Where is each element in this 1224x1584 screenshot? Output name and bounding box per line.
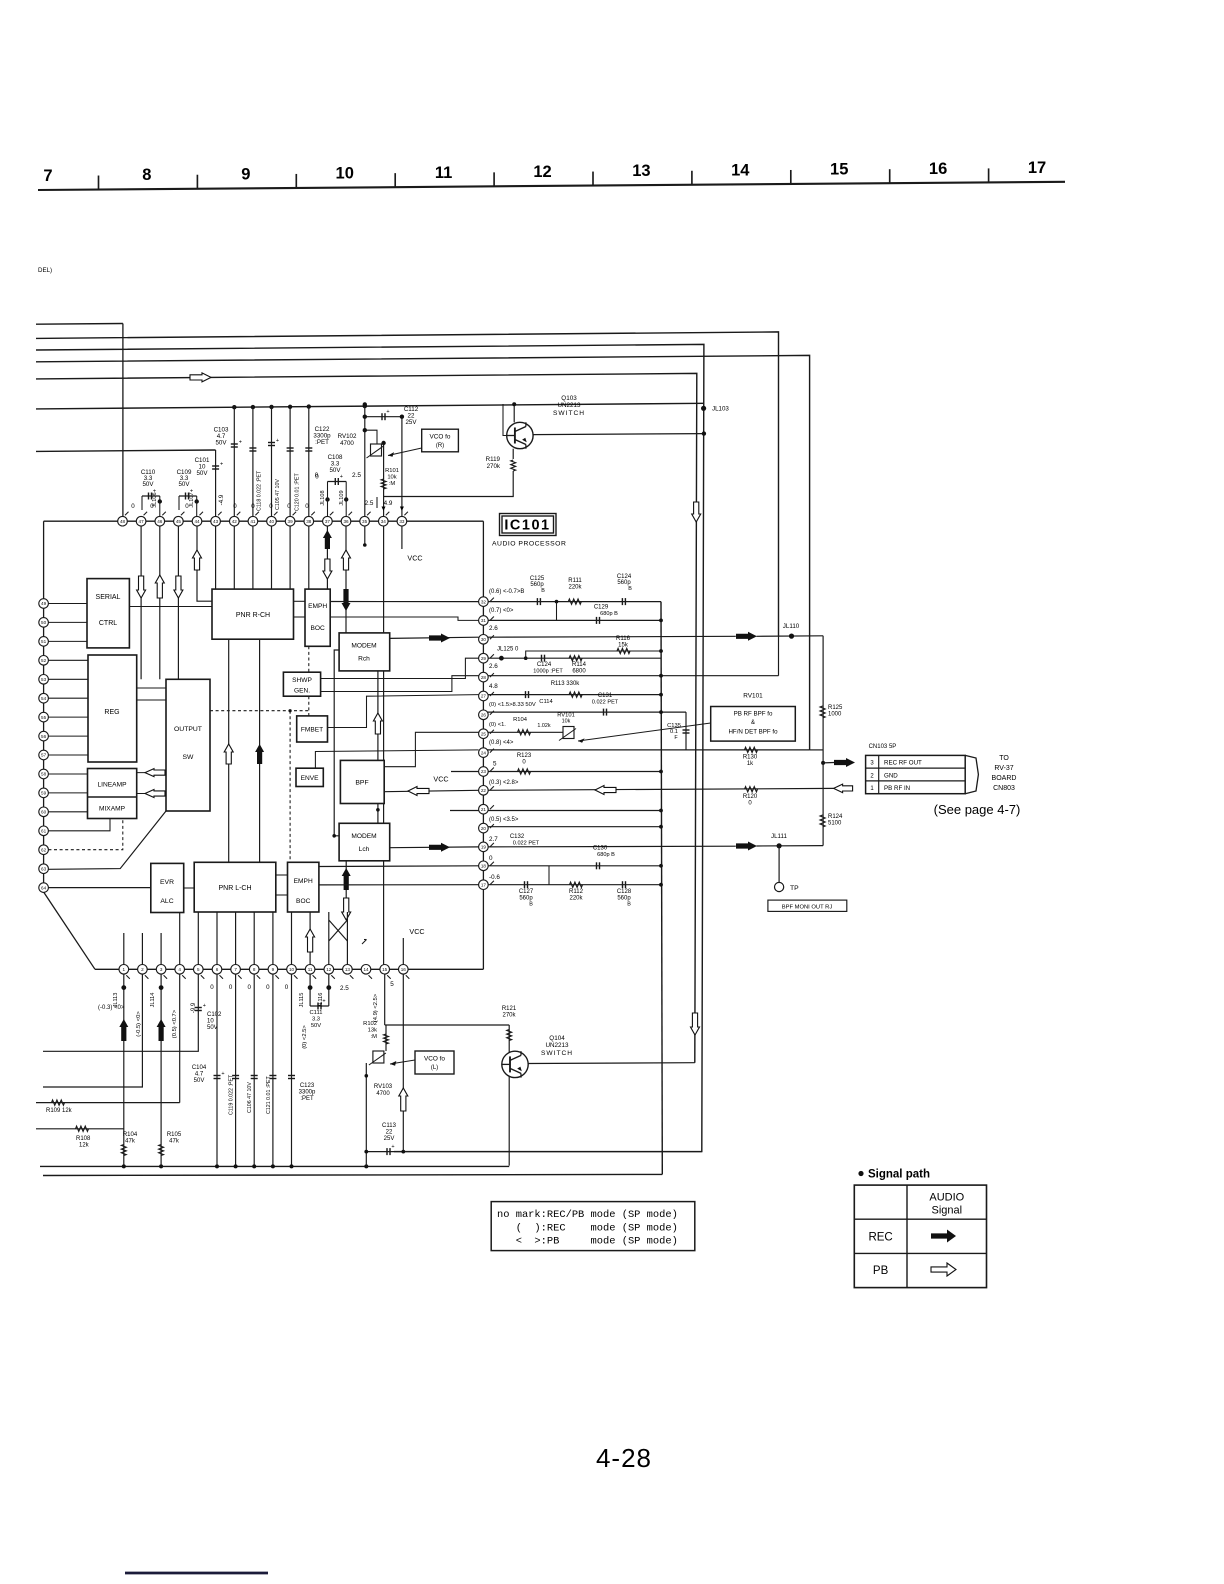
bottom bus y1166 <box>40 1165 509 1167</box>
signal arrow down col47 <box>137 576 146 598</box>
svg-text:PNR R-CH: PNR R-CH <box>236 612 270 619</box>
wire REG to OUTPUT SW b <box>137 699 166 701</box>
svg-text:2.6: 2.6 <box>489 625 498 632</box>
junction JL114 <box>160 969 162 1166</box>
svg-text:46: 46 <box>157 519 163 524</box>
wire PNR L-CH to EMPH lower a <box>276 874 288 876</box>
capacitor C118 0.022 PET <box>249 447 256 449</box>
block SERIAL CTRL <box>87 579 129 648</box>
svg-text:C104: C104 <box>192 1065 207 1071</box>
capacitor C111 3.3 50V <box>310 1005 329 1007</box>
wire col15 to Q104 base line <box>384 969 386 1025</box>
svg-text:680p B: 680p B <box>597 852 615 858</box>
legend PB open arrow <box>931 1263 956 1276</box>
svg-text:0: 0 <box>150 503 154 510</box>
trimmer RV102 4700 <box>371 444 382 456</box>
wire PNR R-CH to EMPH a <box>294 600 306 602</box>
tick marks at right pin labels <box>125 512 494 979</box>
wire PNR R-CH to EMPH b <box>294 616 306 618</box>
svg-text:4.9: 4.9 <box>384 500 393 507</box>
svg-text:33: 33 <box>399 519 405 524</box>
svg-text:R108: R108 <box>76 1136 91 1142</box>
svg-text:(0) <1.: (0) <1. <box>489 722 506 728</box>
svg-text:SWITCH: SWITCH <box>553 410 585 417</box>
svg-text:R113 330k: R113 330k <box>551 681 581 687</box>
svg-text:1000p :PET: 1000p :PET <box>533 669 563 675</box>
svg-text:16: 16 <box>929 160 947 178</box>
svg-text:15: 15 <box>830 161 848 179</box>
svg-text:JL114: JL114 <box>150 993 156 1008</box>
svg-text:VCO fo: VCO fo <box>424 1056 445 1063</box>
svg-text:LINEAMP: LINEAMP <box>98 782 128 789</box>
svg-text:PB: PB <box>873 1265 889 1277</box>
pin20 line <box>483 826 661 828</box>
svg-text:50V: 50V <box>215 440 227 447</box>
svg-text:C120 0.01 :PET: C120 0.01 :PET <box>294 473 300 511</box>
resistor R125 1000 <box>820 706 825 718</box>
svg-text:0: 0 <box>269 503 273 510</box>
svg-text:6800: 6800 <box>572 669 586 675</box>
svg-text:12: 12 <box>533 163 551 181</box>
svg-text:0: 0 <box>266 984 270 991</box>
svg-text:R121: R121 <box>502 1006 517 1012</box>
block PNR L-CH <box>194 862 276 912</box>
ruler scale bar <box>38 159 1065 190</box>
svg-text:TO: TO <box>999 755 1009 762</box>
wire bus A (y338) to vertical x778 <box>36 332 779 636</box>
svg-text:57: 57 <box>41 753 47 758</box>
svg-text:C129: C129 <box>594 605 609 611</box>
svg-text:FMBET: FMBET <box>301 727 323 734</box>
svg-text:7: 7 <box>43 167 52 185</box>
svg-text:4700: 4700 <box>340 440 354 447</box>
wire bus E (y408) ending at JL103 <box>36 403 704 409</box>
wire col4 down <box>179 969 181 1102</box>
wire CN103 pin3 arrow <box>823 762 834 764</box>
svg-text:15k: 15k <box>618 643 629 649</box>
wire SHWP GEN out to pin28 <box>321 676 479 692</box>
svg-text:4-28: 4-28 <box>596 1443 652 1473</box>
svg-text:R116: R116 <box>616 636 631 642</box>
wire right column chain <box>482 521 484 969</box>
diagonal wire pin64 to bottom row <box>44 892 95 969</box>
svg-text:25: 25 <box>481 731 487 736</box>
signal arrow up col36 <box>342 550 351 570</box>
block EMPH BOC lower <box>288 862 319 912</box>
wire REG to OUTPUT SW a <box>137 687 166 689</box>
svg-text:47: 47 <box>139 519 145 524</box>
capacitor C101 <box>212 465 219 467</box>
svg-text:680p B: 680p B <box>600 611 618 617</box>
svg-text:JL110: JL110 <box>783 623 800 630</box>
svg-text:36: 36 <box>343 519 349 524</box>
dashed wire pin62 to MIXAMP <box>48 819 122 850</box>
bottom left rule <box>125 1572 268 1575</box>
svg-text:C114: C114 <box>539 699 553 705</box>
junction JL106 <box>158 499 162 503</box>
svg-text:0: 0 <box>247 984 251 991</box>
transistor Q103 <box>507 422 533 448</box>
svg-text:R119: R119 <box>486 456 501 463</box>
svg-text:0: 0 <box>210 984 214 991</box>
svg-text:+: + <box>386 409 389 415</box>
svg-text:220k: 220k <box>569 896 583 902</box>
svg-text:18: 18 <box>481 864 487 869</box>
svg-text:-4.9: -4.9 <box>218 494 225 505</box>
wire col6 C104 <box>216 969 218 1166</box>
svg-text:C102: C102 <box>207 1012 222 1018</box>
svg-text:16: 16 <box>401 967 407 972</box>
svg-text:50V: 50V <box>178 481 190 488</box>
wire col8 C106 <box>253 969 255 1166</box>
svg-text:R111: R111 <box>568 578 582 584</box>
svg-text:11: 11 <box>435 164 452 182</box>
svg-text:PNR L-CH: PNR L-CH <box>218 885 251 892</box>
svg-text:30: 30 <box>481 637 487 642</box>
svg-text:4: 4 <box>178 967 181 972</box>
wire Q103 base up <box>503 404 507 436</box>
wire FMBET out to pin27 <box>328 695 479 728</box>
svg-text:B: B <box>627 902 631 908</box>
wire BPF bottom to MODEM Lch top <box>377 804 379 824</box>
svg-text:R109 12k: R109 12k <box>46 1108 73 1114</box>
wire PNR L-CH to EMPH lower b <box>276 894 288 896</box>
wire BPF to pin22 (open arrow) <box>384 790 478 791</box>
svg-text:(0.7) <0>: (0.7) <0> <box>489 608 514 614</box>
capacitor C120 0.01 PET <box>287 447 294 449</box>
signal arrow up col3 filled <box>157 1019 166 1041</box>
svg-text:31: 31 <box>481 618 487 623</box>
pin30 line REC out to JL110 <box>483 635 735 638</box>
svg-text:37: 37 <box>325 519 331 524</box>
svg-text:RV103: RV103 <box>374 1084 393 1090</box>
block REG <box>88 655 137 762</box>
box VCO fo (R) <box>422 429 459 452</box>
svg-text:1k: 1k <box>747 761 754 767</box>
svg-text:14: 14 <box>363 967 369 972</box>
transistor Q104 <box>502 1051 528 1077</box>
wire pin24 to CN103 drop <box>810 749 824 751</box>
open left arrow at CN103 pin1 <box>834 784 853 793</box>
svg-text:(0.6) <-0.7>B: (0.6) <-0.7>B <box>489 589 524 595</box>
junction JL110 <box>757 635 824 638</box>
svg-text:PB RF BPF fo: PB RF BPF fo <box>734 711 773 718</box>
svg-text:R123: R123 <box>517 753 532 759</box>
svg-text::PET: :PET <box>315 439 329 446</box>
wire pin64 to EVR ALC <box>48 887 150 889</box>
signal arrow up col46 <box>155 575 164 598</box>
dashed line EMPH BOC to SHWP GEN <box>308 646 310 672</box>
box RV101 PB RF BPF fo <box>711 707 796 742</box>
svg-text:BOC: BOC <box>296 898 311 905</box>
svg-text:35: 35 <box>362 519 368 524</box>
vertical wire x122.9 from bus L0 to pin 48 <box>122 324 124 517</box>
svg-text:41: 41 <box>250 519 256 524</box>
svg-text:0.022 PET: 0.022 PET <box>592 700 619 706</box>
wire MODEM Rch bottom to BPF top (up arrow) <box>377 671 379 761</box>
svg-text:UN2213: UN2213 <box>545 1042 569 1049</box>
svg-text:55: 55 <box>41 715 47 720</box>
svg-text:JL125 0: JL125 0 <box>497 647 519 653</box>
legend box REC/PB modes <box>491 1202 695 1251</box>
svg-text:5: 5 <box>197 967 200 972</box>
wire MIXAMP to OUTPUT SW lower with open left arrow <box>137 793 166 795</box>
svg-text:VCC: VCC <box>407 554 422 563</box>
svg-text:0: 0 <box>285 984 289 991</box>
block MODEM Lch <box>339 823 390 861</box>
svg-text:0.022 PET: 0.022 PET <box>513 841 540 847</box>
wire col pin45 down <box>177 521 179 679</box>
svg-text:270k: 270k <box>487 463 501 470</box>
arrow up col11 below EMPH <box>309 912 311 969</box>
svg-text:C111: C111 <box>310 1010 323 1016</box>
wire col4 to EVR bottom <box>179 913 181 970</box>
wire EMPH lower to pin17 line <box>319 884 479 886</box>
pin28 line to JL110 riser <box>483 675 778 677</box>
svg-text:43: 43 <box>213 519 219 524</box>
svg-text:RV101: RV101 <box>743 693 763 700</box>
resistor R105 47k <box>159 1145 164 1156</box>
block BPF <box>340 760 384 803</box>
wire col pin34 long vertical <box>383 442 385 969</box>
svg-text:JL107: JL107 <box>189 492 195 507</box>
wire col12 to EMPH bottom <box>328 912 330 969</box>
svg-text:JL115: JL115 <box>299 993 305 1008</box>
svg-text:B: B <box>628 586 632 592</box>
svg-text:21: 21 <box>481 807 487 812</box>
svg-text:JL113: JL113 <box>113 993 119 1008</box>
svg-text:40: 40 <box>269 519 275 524</box>
open arrow down on x697 (upper) <box>692 502 701 522</box>
svg-text:(R): (R) <box>436 443 444 449</box>
svg-text:R125: R125 <box>828 705 843 711</box>
wire ENVE to pin24 <box>315 750 478 768</box>
capacitor C103 <box>231 443 238 445</box>
svg-text:47k: 47k <box>125 1139 136 1145</box>
wire bus B (y350) to vertical x704 (JL103 net) <box>36 344 704 1151</box>
resistor R119 270k <box>512 449 514 459</box>
wire Q103 emitter to JL103 net <box>533 434 704 435</box>
svg-text:10: 10 <box>207 1019 214 1025</box>
svg-text:+: + <box>221 1071 224 1077</box>
svg-text:Signal path: Signal path <box>868 1169 930 1181</box>
svg-text:Rch: Rch <box>358 656 370 663</box>
junction JL113 <box>123 969 125 1166</box>
junction CN103 pin3 node <box>821 761 825 765</box>
legend table <box>854 1185 986 1288</box>
pin26 line C131 to C135 <box>483 711 686 713</box>
svg-text:PB RF IN: PB RF IN <box>884 785 910 792</box>
svg-text:17: 17 <box>1028 159 1046 177</box>
svg-text:28: 28 <box>481 675 487 680</box>
svg-text:2.5: 2.5 <box>365 500 374 507</box>
svg-text:(L): (L) <box>431 1065 438 1071</box>
pin21 stub <box>450 810 483 812</box>
vertical wire x228.7 (hollow up arrow) PNR R-CH to PNR L-CH <box>228 639 230 862</box>
pointer arrow VCO(L) to RV103 <box>390 1060 415 1064</box>
capacitor C105 47 10V <box>268 442 275 444</box>
wire col pin40 <box>271 405 273 589</box>
wire col pin33 down to VCC <box>401 417 403 522</box>
svg-text:CN803: CN803 <box>993 785 1015 792</box>
svg-text:REC: REC <box>868 1232 892 1244</box>
svg-text:19: 19 <box>481 845 487 850</box>
signal arrow up col37 filled <box>323 530 332 549</box>
svg-text:AUDIO PROCESSOR: AUDIO PROCESSOR <box>492 541 566 548</box>
IC101 left pins 49-64 <box>39 599 49 893</box>
block ENVE <box>296 768 323 786</box>
IC101 designator box <box>500 514 557 536</box>
svg-text:50V: 50V <box>194 1078 205 1084</box>
X cross wires below EMPH lower <box>329 920 348 941</box>
svg-text:8: 8 <box>142 166 151 184</box>
left pins wires to blocks <box>48 603 87 605</box>
svg-text:7: 7 <box>234 967 237 972</box>
block MODEM Rch <box>339 633 390 671</box>
svg-text:0: 0 <box>229 984 233 991</box>
svg-text:EMPH: EMPH <box>294 878 313 885</box>
wire bus D (y378) to vertical x697 <box>36 373 697 1062</box>
svg-text:10: 10 <box>289 967 295 972</box>
wire Q104 base row y1025 <box>385 1024 510 1026</box>
svg-text:2.5: 2.5 <box>340 985 349 992</box>
wire Q104 emitter loop <box>528 1062 695 1065</box>
pin32 line C125 R111 C124 <box>483 601 661 603</box>
junction JL115 <box>309 969 311 1006</box>
svg-text::PET: :PET <box>300 1096 314 1102</box>
junction JL116 <box>328 969 330 1006</box>
box BPF MONI OUT RJ <box>768 900 847 911</box>
svg-text:52: 52 <box>41 658 47 663</box>
svg-text:51: 51 <box>41 639 47 644</box>
wire pin48 to left column <box>44 520 85 522</box>
pin31 line C129 <box>483 619 661 621</box>
svg-text:(0.5) <0.7>: (0.5) <0.7> <box>172 1009 178 1038</box>
svg-text:JL108: JL108 <box>320 490 326 505</box>
svg-text:0: 0 <box>287 503 291 510</box>
wire LINEAMP to OUTPUT SW upper with open left arrow <box>137 772 166 774</box>
legend title Signal path <box>858 1171 863 1176</box>
svg-text:38: 38 <box>306 519 312 524</box>
svg-text:62: 62 <box>41 847 47 852</box>
wire col pin38 to EMPH BOC <box>308 405 310 589</box>
svg-text:26: 26 <box>481 713 487 718</box>
pin29 line JL125 C124 R114 <box>483 657 661 659</box>
wire EMPH to pin32 line <box>330 601 483 603</box>
svg-text:50: 50 <box>41 620 47 625</box>
wire bus F (y451) <box>36 450 216 451</box>
pin24 line to R130 CN103 pin3 <box>483 749 809 751</box>
svg-text:C127: C127 <box>519 889 534 895</box>
svg-text:BPF MONI OUT RJ: BPF MONI OUT RJ <box>782 905 833 911</box>
wire col7 C119 <box>235 969 237 1166</box>
legend REC filled arrow <box>931 1230 956 1243</box>
pin22 line R120 to CN103 pin1 <box>483 788 833 790</box>
svg-text:3300p: 3300p <box>299 1090 316 1096</box>
wire OUTPUT SW diagonal to pin63 <box>48 811 166 869</box>
svg-text:R101: R101 <box>385 468 399 474</box>
svg-text:( ):REC mode (SP mode): ( ):REC mode (SP mode) <box>497 1223 678 1235</box>
svg-text:C128: C128 <box>617 889 632 895</box>
svg-text:JL111: JL111 <box>771 833 787 840</box>
svg-text:+: + <box>239 440 242 446</box>
svg-text:9: 9 <box>241 165 250 183</box>
svg-text:13k: 13k <box>368 1028 377 1034</box>
svg-text:C124: C124 <box>537 662 552 668</box>
svg-text:+: + <box>276 438 279 444</box>
svg-text:25V: 25V <box>405 419 417 426</box>
svg-text:GEN.: GEN. <box>294 688 310 695</box>
wire col pin46 down <box>159 521 161 679</box>
svg-text:C105 47 10V: C105 47 10V <box>275 479 281 510</box>
bottom rail y1175 to bus riser <box>43 1174 662 1175</box>
svg-text:17: 17 <box>481 882 487 887</box>
svg-text:59: 59 <box>41 791 47 796</box>
svg-text:(See page 4-7): (See page 4-7) <box>934 802 1021 817</box>
resistor R123 0 <box>518 769 531 774</box>
svg-text:BOARD: BOARD <box>992 775 1017 782</box>
svg-text:50V: 50V <box>207 1025 218 1031</box>
signal arrow pin30 right <box>736 632 757 641</box>
wire col pin42 to PNR R-CH <box>233 405 235 589</box>
svg-text:2.5: 2.5 <box>352 472 361 479</box>
open arrow down on x697->Q104 (lower) <box>691 1013 700 1035</box>
open left arrow on pin22 line mid <box>595 786 616 795</box>
signal arrow pin19 right <box>736 842 757 851</box>
svg-text:C119 0.022 :PET: C119 0.022 :PET <box>229 1074 235 1115</box>
svg-text:VCC: VCC <box>433 775 448 784</box>
vertical wire x259.6 (filled up arrow) <box>259 639 261 862</box>
svg-text:R105: R105 <box>167 1132 182 1138</box>
svg-text:0: 0 <box>185 503 189 510</box>
svg-text:R124: R124 <box>828 814 843 820</box>
svg-text:12k: 12k <box>79 1143 90 1149</box>
svg-text:50V: 50V <box>142 481 154 488</box>
svg-text:3.3: 3.3 <box>312 1017 320 1023</box>
capacitor C122 3300p PET <box>305 447 312 449</box>
svg-text:(0.5) <3.5>: (0.5) <3.5> <box>489 817 519 823</box>
riser x778 pin28 to JL110 <box>778 636 780 676</box>
svg-text:34: 34 <box>381 519 387 524</box>
svg-text:MODEM: MODEM <box>351 833 376 840</box>
IC101 right pins 32-17 <box>479 597 489 890</box>
svg-text:5: 5 <box>493 761 497 768</box>
resistor R101 10k <box>381 479 386 489</box>
wire col2 <box>43 969 142 1087</box>
pin25 line R104 RV101 <box>483 731 563 733</box>
svg-text:MODEM: MODEM <box>351 643 376 650</box>
svg-text:9: 9 <box>272 967 275 972</box>
svg-text:220k: 220k <box>568 585 582 591</box>
svg-text:B: B <box>541 588 545 594</box>
junction JL109 <box>344 497 348 501</box>
svg-text:32: 32 <box>481 599 487 604</box>
svg-text:48: 48 <box>120 519 126 524</box>
dashed control line horizontal y710.7 <box>210 710 310 712</box>
wire EVR to PNR L-CH <box>184 887 195 889</box>
wire col10 C123 <box>291 969 293 1166</box>
svg-text:0: 0 <box>251 503 255 510</box>
svg-text:14: 14 <box>731 161 750 179</box>
svg-text:22: 22 <box>481 788 487 793</box>
svg-text:50V: 50V <box>311 1023 321 1029</box>
svg-text:60: 60 <box>41 810 47 815</box>
svg-text:5100: 5100 <box>828 821 842 827</box>
capacitor C135 0.1F <box>685 712 687 750</box>
wire col16 down to C113 line <box>402 969 404 1151</box>
block FMBET <box>297 716 328 742</box>
junction JL103 <box>701 406 706 411</box>
